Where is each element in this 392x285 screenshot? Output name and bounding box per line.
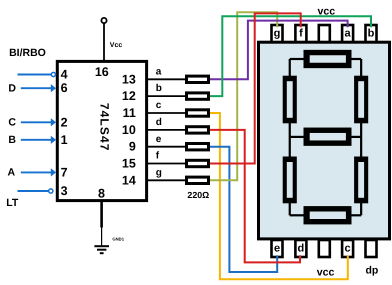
svg-text:10: 10 [122, 123, 136, 137]
svg-text:220Ω: 220Ω [187, 190, 209, 200]
svg-text:4: 4 [61, 68, 68, 82]
wire segment b (green) [210, 16, 371, 96]
wire segment f (red) [210, 13, 301, 163]
svg-text:C: C [8, 116, 16, 128]
svg-text:f: f [156, 151, 160, 162]
svg-text:e: e [156, 134, 162, 145]
svg-text:a: a [156, 66, 162, 77]
resistor R3 (segment c) [187, 110, 209, 116]
wire output f (black) [147, 163, 185, 165]
Vcc terminal circle [101, 18, 106, 23]
svg-text:b: b [156, 83, 162, 94]
svg-text:B: B [8, 134, 16, 146]
svg-text:8: 8 [98, 186, 105, 200]
resistor R2 (segment b) [187, 93, 209, 99]
wire output d (black) [147, 129, 185, 131]
ground symbol [94, 246, 109, 253]
segment lead top-right corner [351, 59, 362, 77]
svg-text:D: D [8, 82, 16, 94]
wire segment a (purple) [210, 21, 348, 80]
svg-text:A: A [8, 167, 16, 179]
segment b (upper-right vertical) [354, 76, 368, 124]
svg-text:g: g [156, 167, 162, 178]
svg-text:12: 12 [122, 89, 136, 103]
svg-text:c: c [156, 100, 162, 111]
svg-text:13: 13 [122, 72, 136, 86]
GND wire thin [101, 228, 103, 246]
segment lead bottom-right corner [351, 202, 362, 215]
svg-text:c: c [345, 243, 351, 255]
svg-text:15: 15 [122, 157, 136, 171]
resistor R1 (segment a) [187, 76, 209, 82]
segment lead middle-right corner [351, 122, 362, 157]
wire output g (black) [147, 179, 185, 181]
svg-text:3: 3 [61, 184, 68, 198]
segment f (upper-left vertical) [283, 76, 297, 124]
segment d (bottom horizontal) [304, 206, 352, 224]
Vcc terminal wire [103, 23, 105, 62]
wire output e (black) [147, 146, 185, 148]
svg-text:GND1: GND1 [112, 237, 124, 242]
svg-text:a: a [345, 27, 352, 39]
wire output c (black) [147, 112, 185, 114]
svg-text:b: b [368, 27, 375, 39]
svg-text:vcc: vcc [317, 266, 335, 278]
segment e (lower-left vertical) [283, 157, 297, 204]
resistor R5 (segment e) [187, 144, 209, 150]
segment c (lower-right vertical) [354, 157, 368, 204]
svg-text:LT: LT [6, 197, 19, 209]
display pin VCC (top middle) [319, 25, 330, 42]
display pin d (bottom) [295, 240, 306, 257]
input C wire [21, 118, 56, 126]
svg-text:74LS47: 74LS47 [98, 103, 112, 152]
display pin c (bottom) [342, 240, 353, 257]
segment g (middle horizontal) [304, 128, 352, 146]
svg-text:f: f [299, 27, 303, 39]
display pin a (top) [342, 25, 353, 42]
svg-text:g: g [274, 27, 281, 39]
svg-text:11: 11 [123, 106, 136, 120]
svg-text:BI/RBO: BI/RBO [9, 47, 46, 59]
display pin e (bottom) [272, 240, 283, 257]
resistor R4 (segment d) [187, 127, 209, 133]
input LT wire [18, 190, 49, 192]
segment lead top-left corner [290, 59, 305, 77]
segment a (top horizontal) [304, 50, 352, 68]
svg-text:dp: dp [366, 264, 379, 276]
resistor R6 (segment f) [187, 160, 209, 166]
resistor R7 (segment g) [187, 177, 209, 183]
svg-text:16: 16 [95, 65, 109, 79]
svg-text:9: 9 [129, 140, 136, 154]
svg-text:1: 1 [61, 133, 68, 147]
display pin VCC (bottom middle) [319, 240, 330, 257]
wire segment d (red) [210, 130, 300, 263]
segment lead bottom-left corner [290, 202, 305, 215]
svg-text:6: 6 [61, 81, 68, 95]
input BI/RBO bubble [51, 72, 55, 76]
GND wire thick [100, 201, 103, 228]
wire output a (black) [147, 78, 185, 80]
IC U1 74LS47 body [57, 61, 146, 200]
input D wire [21, 84, 56, 92]
display pin dp (bottom) [366, 240, 377, 257]
svg-text:14: 14 [122, 173, 136, 187]
wire segment g (olive) [210, 12, 277, 180]
display pin b (top) [366, 25, 377, 42]
segment lead middle-left corner [290, 122, 305, 157]
svg-text:d: d [156, 117, 162, 128]
wire output b (black) [147, 95, 185, 97]
svg-text:7: 7 [61, 165, 68, 179]
input B wire [21, 136, 56, 144]
svg-text:2: 2 [61, 115, 68, 129]
7-segment display body [259, 42, 390, 239]
input A wire [21, 168, 56, 176]
svg-text:d: d [298, 243, 305, 255]
input BI/RBO wire [18, 74, 52, 76]
input LT bubble [49, 189, 53, 193]
svg-text:e: e [274, 243, 280, 255]
svg-text:Vcc: Vcc [110, 42, 123, 49]
display pin g (top) [272, 25, 283, 42]
wire segment e (blue) [210, 147, 277, 272]
display pin f (top) [295, 25, 306, 42]
wire segment c (yellow) [210, 113, 348, 279]
